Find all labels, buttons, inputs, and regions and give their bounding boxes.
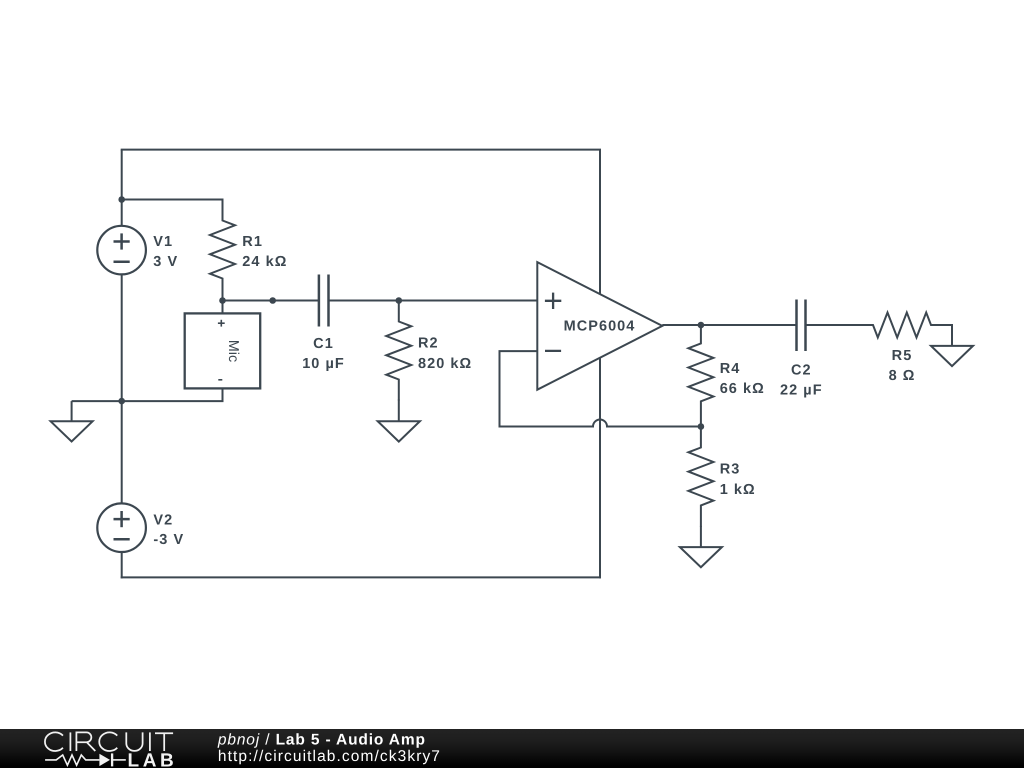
wire V+ power drop (top rail to op-amp / bottom rail) [599,150,601,579]
node dots [118,196,704,430]
svg-text:8 Ω: 8 Ω [889,368,916,384]
wire left column top (rail to V1) [121,150,123,226]
svg-text:R5: R5 [892,348,913,364]
svg-text:1 kΩ: 1 kΩ [720,482,756,498]
wire bottom rail [121,576,601,578]
svg-text:LAB: LAB [128,750,178,768]
microphone Mic [185,313,261,388]
svg-text:C2: C2 [791,362,812,378]
node R1/mic/C1 junction [219,297,226,304]
ground (R3) [680,526,722,567]
svg-text:3 V: 3 V [153,254,178,270]
node C1/R2 junction [396,297,403,304]
svg-text:MCP6004: MCP6004 [564,319,636,335]
CircuitLab logo: CIRCUIT wordmark [45,732,173,751]
wire mic bottom pin to ground rail [72,388,223,401]
node signal junction [269,297,276,304]
resistor R4 [688,325,713,427]
svg-text:-3 V: -3 V [153,532,184,548]
voltage source V2 [97,503,146,552]
svg-text:10 µF: 10 µF [302,356,345,372]
node V1/R1 junction [118,196,125,203]
svg-text:24 kΩ: 24 kΩ [242,254,287,270]
svg-text:66 kΩ: 66 kΩ [720,381,765,397]
resistor R2 [386,301,411,401]
ground (mic / V1 rail) [51,401,93,441]
wire signal: C1 right plate to op-amp + input [329,300,538,302]
svg-text:R4: R4 [720,361,741,377]
svg-text:820 kΩ: 820 kΩ [418,356,472,372]
node ground rail junction [118,398,125,405]
CircuitLab logo: resistor-diode squiggle [45,753,126,766]
wire V2 bottom to bottom rail [121,552,123,578]
CircuitLab logo: LAB wordmark [128,750,178,768]
capacitor C1 [319,275,329,327]
wire top rail [121,149,601,151]
ground (R2) [378,400,420,442]
resistor R3 [688,427,713,527]
wire V1 to ground node to V2 [121,275,123,502]
svg-text:V2: V2 [153,512,173,528]
resistor R5 [852,313,953,338]
wire node A branch to R1 [122,199,224,201]
ground (R5) [931,325,973,366]
wire mic top pin [222,301,224,314]
node R4/R3/feedback [698,423,705,430]
wire signal: R1/mic node to C1 left plate [223,300,319,302]
resistor R1 [210,200,235,301]
svg-text:Mic: Mic [225,340,241,362]
svg-text:R2: R2 [418,336,439,352]
svg-text:V1: V1 [153,234,173,250]
svg-text:R1: R1 [242,234,263,250]
svg-text:C1: C1 [313,336,334,352]
svg-text:22 µF: 22 µF [780,383,823,399]
op-amp U1 MCP6004 [537,262,662,390]
node op-amp output / R4 [698,322,705,329]
wire op-amp output to C2 [662,324,796,326]
voltage source V1 [97,226,146,275]
svg-text:pbnoj / Lab 5 - Audio Amp: pbnoj / Lab 5 - Audio Amp [217,732,426,749]
svg-text:http://circuitlab.com/ck3kry7: http://circuitlab.com/ck3kry7 [218,748,441,765]
wire feedback loop (minus input to R4/R3 node, hop over power wire) [500,351,701,426]
capacitor C2 [797,300,806,352]
svg-text:R3: R3 [720,462,741,478]
wire C2 to R5 [806,324,853,326]
footer title text [217,732,441,765]
